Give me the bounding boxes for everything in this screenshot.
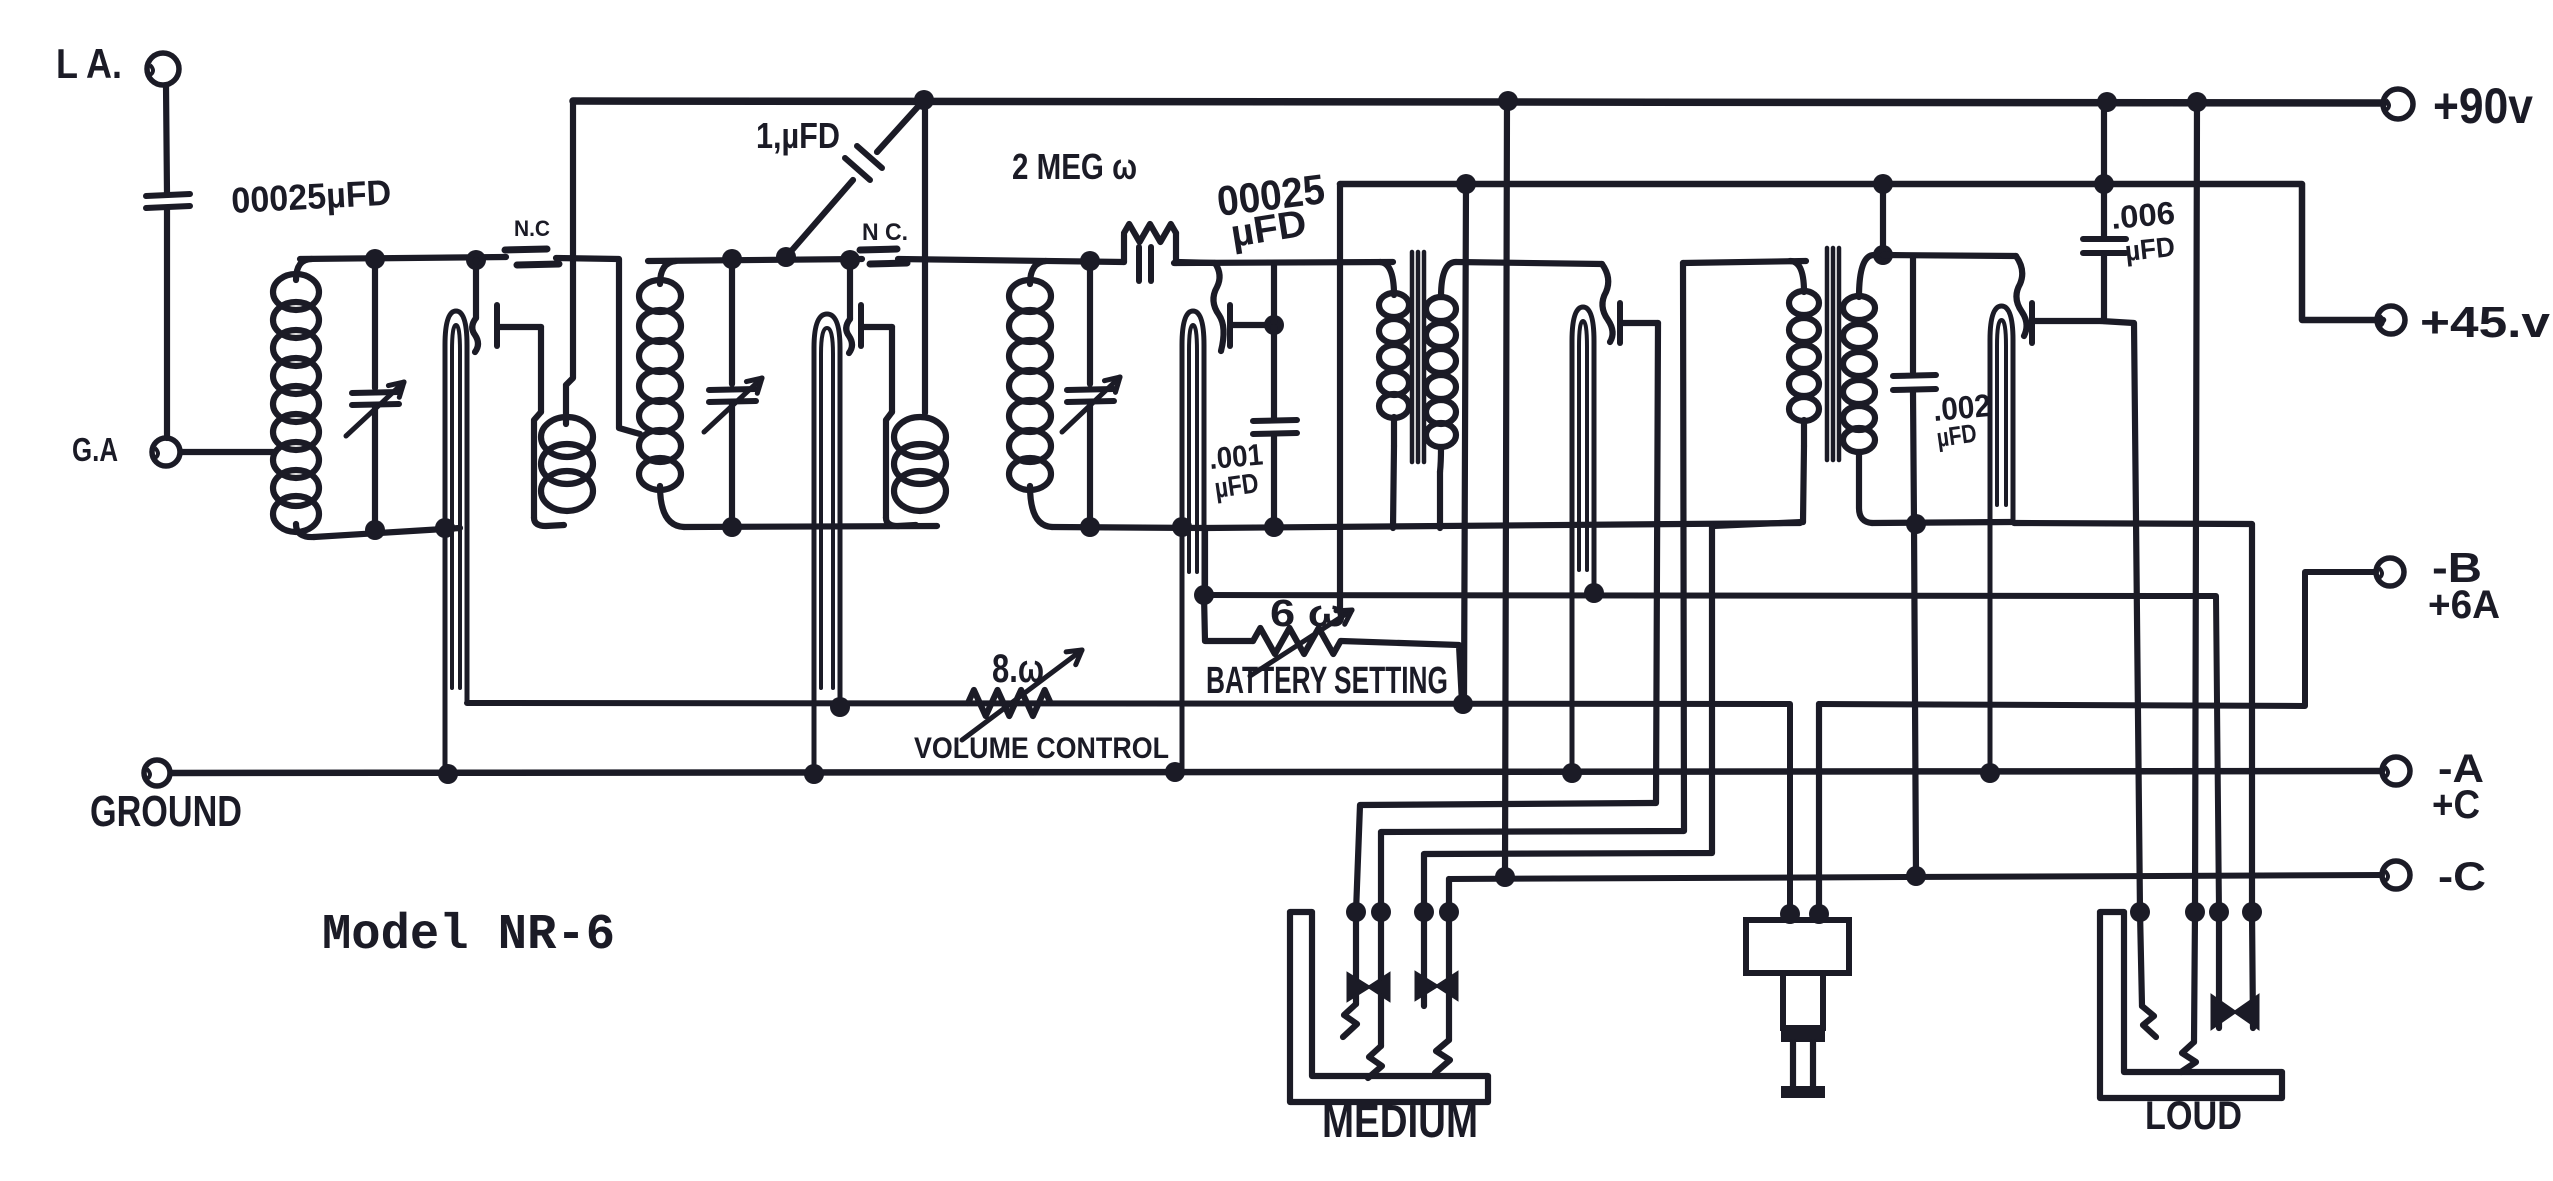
svg-text:.006: .006 xyxy=(2109,195,2176,236)
svg-text:8.ω: 8.ω xyxy=(992,647,1044,691)
svg-text:+6A: +6A xyxy=(2428,583,2500,627)
svg-text:+C: +C xyxy=(2432,783,2480,827)
svg-text:µFD: µFD xyxy=(2123,231,2176,267)
svg-text:L A.: L A. xyxy=(56,40,122,87)
svg-text:G.A: G.A xyxy=(72,431,118,468)
svg-text:BATTERY SETTING: BATTERY SETTING xyxy=(1206,660,1448,702)
svg-text:6 ω: 6 ω xyxy=(1270,593,1346,635)
svg-text:VOLUME CONTROL: VOLUME CONTROL xyxy=(914,732,1169,765)
svg-text:2 MEG ω: 2 MEG ω xyxy=(1012,146,1137,187)
svg-text:LOUD: LOUD xyxy=(2145,1094,2242,1138)
svg-text:N.C: N.C xyxy=(514,216,550,241)
svg-text:1,µFD: 1,µFD xyxy=(756,115,840,156)
svg-text:00025µFD: 00025µFD xyxy=(230,172,392,221)
svg-text:Model NR-6: Model NR-6 xyxy=(322,907,615,964)
svg-text:+90v: +90v xyxy=(2433,78,2533,134)
svg-text:MEDIUM: MEDIUM xyxy=(1322,1095,1478,1147)
svg-text:GROUND: GROUND xyxy=(90,787,242,836)
svg-text:µFD: µFD xyxy=(1935,418,1979,453)
svg-text:N C.: N C. xyxy=(862,219,908,246)
svg-text:µFD: µFD xyxy=(1213,467,1261,504)
svg-text:+45.v: +45.v xyxy=(2420,298,2551,347)
svg-text:-C: -C xyxy=(2438,855,2486,899)
